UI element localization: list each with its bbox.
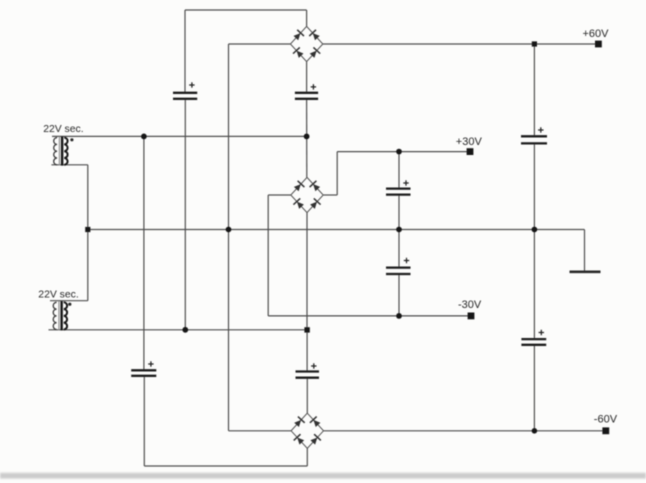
wire: ground symbol drop [584,230,586,272]
wire: T1 bottom lead [51,164,87,166]
wire: center-tap vertical [87,165,89,301]
diode B1 D2 [309,30,321,41]
svg-text:22V sec.: 22V sec. [38,289,78,300]
capacitor C8 plus [539,330,544,335]
capacitor C3 plus [538,127,543,132]
diode B2 D3 [293,198,305,209]
bridge B3 diamond [291,413,323,448]
bridge B1 diamond [290,26,322,61]
junction dot x185 / T2 rail [182,327,188,333]
diode B2 D2 [310,181,322,192]
terminal -30V [468,313,475,320]
wire: B2 left vertex to x268 [268,194,291,196]
wire: C2 bottom to B2 top vertex [306,99,308,178]
capacitor C4 plates [386,189,411,195]
svg-text:22V sec.: 22V sec. [43,124,83,135]
diode B1 D4 [309,47,321,58]
diode B2 D4 [309,198,321,209]
wire: C3 bottom to ground bus [533,143,535,339]
capacitor C1 plus [189,82,194,87]
wire: B3 bottom vertex drop [306,448,308,466]
junction dot T1 rail / x306 [304,134,310,140]
capacitor C5 plates [386,268,411,274]
bridge B2 diamond [291,177,323,212]
wire: C1 top lead up to top rail [184,10,186,93]
junction dot x534 / +60V rail [532,41,537,46]
junction dot x534 / ground bus [532,227,538,233]
junction dot x534 / -60V rail [532,428,538,434]
junction dot x399 / +30V rail [396,149,402,155]
wire: bottom rail [144,465,307,467]
wire: C6 bottom to bottom rail [143,376,145,466]
wire: T2 bottom rail [49,329,308,331]
svg-text:+60V: +60V [583,28,610,40]
capacitor C8 plates [521,339,546,345]
svg-text:-60V: -60V [594,414,618,426]
wire: x399 from +30V rail to C4 [398,152,400,189]
wire: -30V rail [268,315,471,317]
wire: B2 bottom vertex to T2 rail [306,213,308,330]
ground bus [88,229,585,231]
capacitor C2 plus [311,84,316,89]
wire: x228 vertical bus [228,44,230,431]
wire: x534 from +60V rail to C3 [533,44,535,136]
transformer T1 left winding [54,138,57,165]
wire: -60V rail [324,430,606,432]
junction dot x228 / ground bus [226,227,232,233]
terminal +60V [595,41,602,48]
wire: x144 drop from T1 rail to C6 [143,136,145,370]
wire: T2 top lead [50,300,88,302]
diode B3 D4 [309,434,321,445]
scan stripe bottom [0,473,646,479]
diode B1 D3 [293,47,305,58]
diode B3 D1 [293,417,305,428]
svg-text:+30V: +30V [456,136,483,148]
wire: T1 secondary top rail [52,135,307,137]
transformer T1 phase dot [70,138,73,141]
capacitor C6 plates [131,370,156,376]
transformer T2 phase dot [68,303,71,306]
wire: C7 bottom to B3 top vertex [306,378,308,413]
capacitor C6 plus [148,361,153,366]
ground symbol bar [570,270,601,273]
diode B2 D1 [293,181,305,192]
wire: +30V rail [337,151,470,153]
wire: B1 left vertex to x228 bus [229,43,291,45]
wire: top rail [185,9,307,11]
diode B3 D2 [310,417,322,428]
transformer T1 right winding [64,138,67,165]
wire: x337 vertical [336,152,338,195]
capacitor C4 plus [403,180,408,185]
diode B3 D3 [294,434,306,445]
capacitor C1 plates [173,93,197,99]
transformer T2 right winding [64,302,67,329]
wire: B1 bottom vertex to C2 [306,62,308,93]
transformer T2 core [58,301,60,330]
transformer T2 left winding [53,302,56,329]
wire: C4 bottom to ground bus [398,195,400,268]
wire: C5 bottom to -30V rail [398,274,400,316]
wire: C8 bottom to -60V rail [533,345,535,431]
wire: top rail drop to bridge B1 top vertex [306,10,308,26]
wire: B2 right vertex to x337 [323,194,337,196]
junction dot x307 / T2 rail [304,327,309,332]
wire: B1 right vertex to +60V terminal [323,43,599,45]
junction dot x399 / ground bus [396,227,402,233]
capacitor C2 plates [295,93,318,99]
capacitor C7 plates [296,372,320,378]
capacitor C7 plus [311,363,316,368]
svg-text:-30V: -30V [458,299,482,311]
capacitor C5 plus [404,258,409,263]
wire: T2 rail to C7 [306,330,308,372]
junction dot T1 rail / x144 [141,134,147,140]
wire: C1 bottom drop to T2 rail [184,99,186,330]
capacitor C3 plates [521,136,547,143]
wire: x268 vertical [267,195,269,316]
junction dot x399 / -30V rail [396,313,402,319]
terminal -60V [602,427,609,434]
transformer T1 core [58,137,60,166]
junction dot center tap / ground bus [85,227,90,232]
terminal +30V [467,148,474,155]
diode B1 D1 [292,30,304,41]
wire: x228 to B3 left vertex [229,430,292,432]
